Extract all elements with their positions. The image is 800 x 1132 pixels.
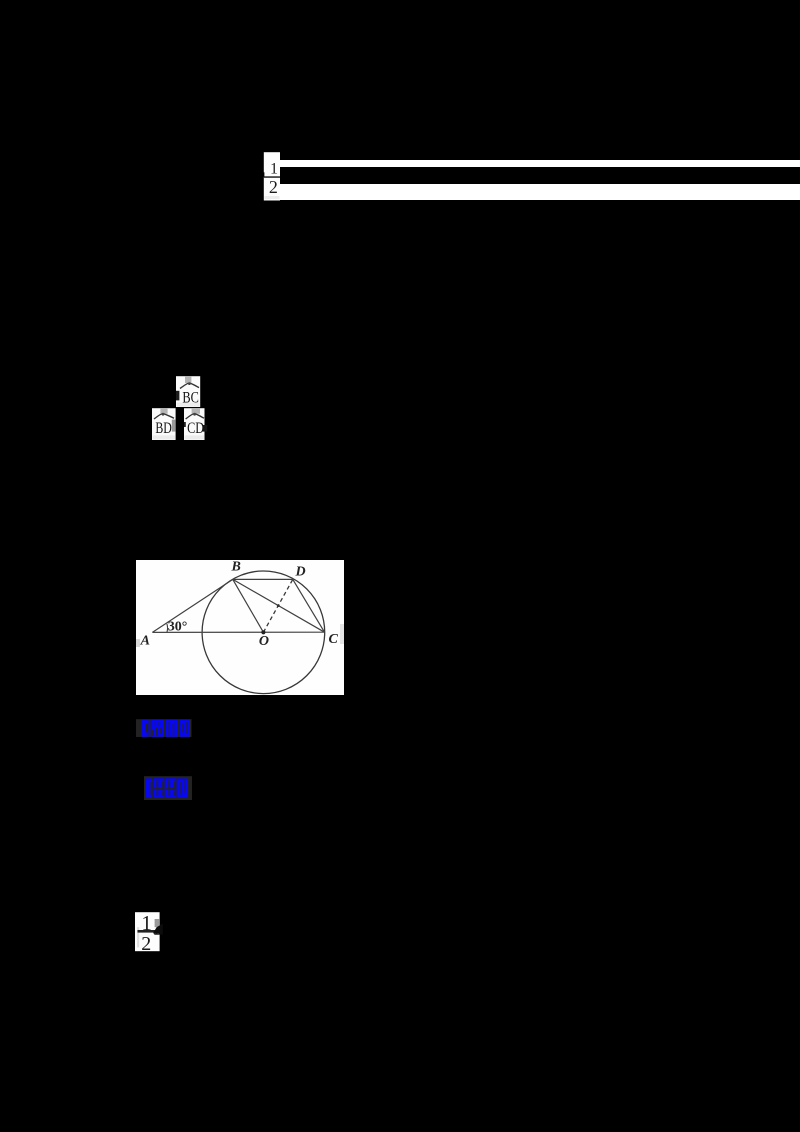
equation image: arc BC xyxy=(176,376,201,407)
char 2 block xyxy=(166,778,177,798)
equation image: fraction 1/2 (top) xyxy=(261,152,281,201)
geometry diagram image (circle O with points A B C D) xyxy=(136,560,344,695)
equation image: arc BD xyxy=(152,408,176,440)
line B-O xyxy=(233,579,264,632)
svg-text:D: D xyxy=(295,564,306,579)
chord B-D xyxy=(233,578,293,580)
svg-text:2: 2 xyxy=(142,933,152,951)
right bracket xyxy=(179,720,189,737)
char 2 block xyxy=(165,720,177,737)
svg-text:1: 1 xyxy=(270,160,278,177)
white image background xyxy=(136,560,344,695)
svg-text:B: B xyxy=(231,560,241,575)
line B-C xyxy=(233,579,325,632)
svg-text:30°: 30° xyxy=(168,620,188,635)
svg-text:BD: BD xyxy=(156,420,172,437)
svg-text:A: A xyxy=(140,634,150,649)
circle O xyxy=(202,571,325,694)
highlighted heading 1 (blue bracket label) xyxy=(136,719,192,737)
char 1 block xyxy=(151,720,163,737)
angle arc at A xyxy=(166,624,169,633)
center dot O xyxy=(261,630,265,634)
stroke gaps xyxy=(146,723,147,732)
left bracket xyxy=(142,720,149,737)
char 1 block xyxy=(154,778,165,798)
svg-text:BC: BC xyxy=(182,389,199,406)
highlighted heading 2 (blue bracket label) xyxy=(144,776,193,800)
dashed line O-D xyxy=(263,579,292,632)
line A-C (horizontal secant) xyxy=(152,631,324,633)
white stripe (top, right of fraction) xyxy=(280,160,800,168)
svg-text:2: 2 xyxy=(269,177,278,197)
svg-text:CD: CD xyxy=(187,420,204,437)
stroke gaps xyxy=(150,782,151,795)
junction dot (BC x OD) xyxy=(277,604,280,607)
svg-text:O: O xyxy=(259,634,269,649)
svg-text:C: C xyxy=(329,632,339,647)
line A-B xyxy=(152,579,232,632)
right bracket xyxy=(178,778,187,797)
line D-C xyxy=(293,579,325,632)
equation image: fraction 1/2 (bottom) xyxy=(135,912,163,951)
white stripe (bottom, right of fraction) xyxy=(280,184,800,200)
left bracket xyxy=(146,778,153,797)
equation image: arc CD xyxy=(184,408,209,440)
